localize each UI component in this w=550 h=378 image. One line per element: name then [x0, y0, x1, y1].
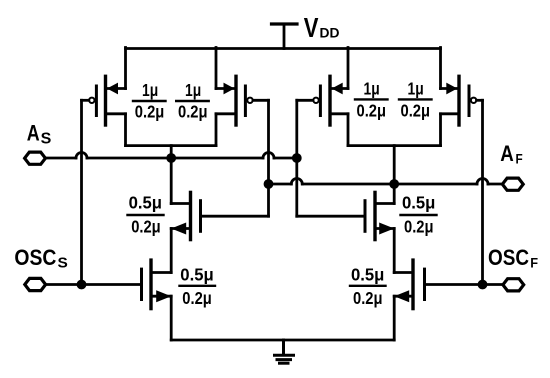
junction node on cross line right / row A	[292, 153, 302, 163]
wire: left pair rail to node S	[170, 146, 173, 158]
svg-text:0.5μ: 0.5μ	[402, 193, 435, 213]
transistor M8 (NMOS, bottom right)	[394, 260, 424, 340]
svg-text:1μ: 1μ	[408, 78, 424, 98]
M2 value label 1u/0.2u	[178, 80, 208, 122]
A_S label	[27, 121, 52, 148]
M8 value label 0.5u/0.2u	[351, 264, 384, 308]
M4 fraction bar	[399, 98, 432, 100]
svg-text:0.5μ: 0.5μ	[180, 264, 213, 284]
M5 fraction bar	[128, 214, 164, 216]
svg-text:S: S	[41, 130, 52, 147]
transistor M2 (PMOS, left pair inner)	[216, 48, 269, 146]
svg-text:0.2μ: 0.2μ	[404, 217, 434, 237]
wire: right pair rail to node F	[393, 146, 396, 184]
svg-text:0.2μ: 0.2μ	[357, 101, 387, 121]
A_F label	[500, 141, 523, 166]
transistor M3 (PMOS, right pair inner)	[297, 48, 348, 146]
junction node S (row A center)	[166, 153, 176, 163]
svg-text:OSC: OSC	[14, 245, 56, 270]
VDD supply symbol	[272, 24, 298, 49]
VDD label	[304, 12, 340, 43]
svg-text:1μ: 1μ	[364, 78, 380, 98]
svg-text:A: A	[27, 121, 40, 146]
OSC_F label	[488, 245, 538, 271]
M6 fraction bar	[180, 285, 216, 287]
svg-text:0.2μ: 0.2μ	[182, 288, 212, 308]
transistor M4 (PMOS, right pair outer)	[441, 48, 483, 146]
svg-text:S: S	[58, 254, 68, 271]
svg-text:0.5μ: 0.5μ	[351, 264, 384, 284]
port A_F	[502, 178, 523, 190]
svg-text:F: F	[516, 151, 524, 167]
svg-text:0.2μ: 0.2μ	[353, 288, 383, 308]
svg-text:0.2μ: 0.2μ	[401, 101, 431, 121]
svg-text:0.2μ: 0.2μ	[135, 102, 165, 122]
transistor M6 (NMOS, bottom left)	[142, 260, 172, 340]
M3 value label 1u/0.2u	[357, 78, 387, 120]
OSC_S label	[14, 245, 67, 272]
M7 fraction bar	[401, 214, 437, 216]
svg-text:OSC: OSC	[488, 245, 529, 270]
M7 value label 0.5u/0.2u	[402, 193, 435, 237]
svg-text:1μ: 1μ	[185, 80, 201, 100]
wire: cross-couple line right (gate of M3 and M7)	[295, 100, 298, 216]
junction OSC_S gate node	[77, 280, 87, 290]
junction node F (row B right column)	[389, 179, 399, 189]
M1 fraction bar	[133, 100, 166, 102]
M5 value label 0.5u/0.2u	[129, 193, 162, 237]
wire: right pair drain rail	[348, 144, 441, 147]
wire: left pair drain rail	[126, 144, 217, 147]
M8 fraction bar	[350, 285, 386, 287]
wire: top VDD rail	[126, 47, 441, 50]
svg-text:A: A	[500, 141, 514, 166]
transistor M1 (PMOS, left pair outer)	[82, 48, 126, 146]
svg-text:1μ: 1μ	[142, 80, 158, 100]
M2 fraction bar	[176, 100, 209, 102]
wire: OSC_F row	[425, 283, 503, 286]
wire: node A_S row with hops	[46, 153, 297, 159]
M6 value label 0.5u/0.2u	[180, 264, 213, 308]
M3 fraction bar	[355, 98, 388, 100]
svg-text:DD: DD	[320, 25, 340, 41]
ground symbol	[275, 340, 294, 363]
wire: OSC_S row	[46, 283, 142, 286]
transistor M5 (NMOS, middle left)	[171, 158, 268, 273]
wire: OSC_S gate line (left vertical)	[80, 100, 83, 284]
port OSC_F	[503, 279, 524, 291]
wire: node A_F row with hops	[269, 179, 503, 184]
svg-text:0.5μ: 0.5μ	[129, 193, 162, 213]
port A_S	[25, 152, 46, 164]
wire: cross-couple line left (gate of M2 and M5)	[267, 100, 270, 216]
svg-text:0.2μ: 0.2μ	[131, 217, 161, 237]
svg-text:V: V	[304, 12, 319, 43]
junction node on cross line left / row B	[264, 179, 274, 189]
svg-text:F: F	[530, 254, 538, 270]
M4 value label 1u/0.2u	[401, 78, 431, 120]
transistor M7 (NMOS, middle right)	[297, 184, 394, 273]
wire: bottom ground rail	[171, 339, 394, 342]
M1 value label 1u/0.2u	[135, 80, 165, 122]
port OSC_S	[25, 278, 46, 290]
junction OSC_F gate node	[478, 280, 488, 290]
svg-text:0.2μ: 0.2μ	[178, 102, 208, 122]
wire: OSC_F gate line (right vertical)	[481, 100, 484, 284]
